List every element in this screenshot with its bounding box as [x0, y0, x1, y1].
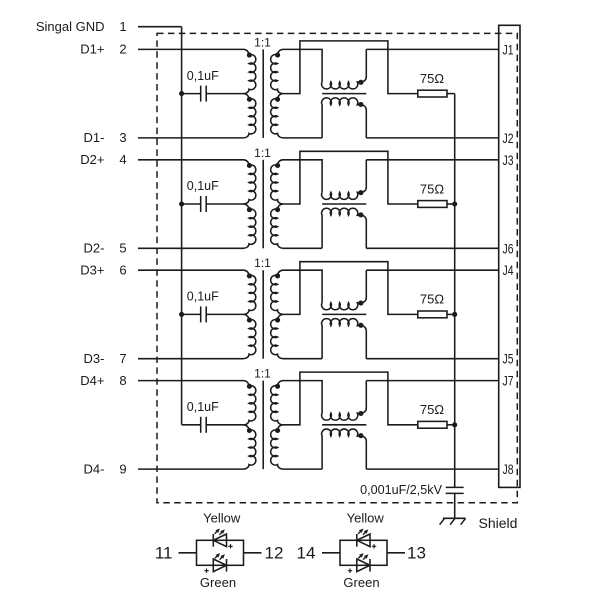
LED green anode plus	[204, 569, 208, 573]
transformer T4 core	[262, 381, 264, 470]
svg-text:J3: J3	[503, 152, 514, 168]
T1 secondary dot bottom	[275, 97, 280, 102]
wire T2 secondary bottom to choke L2	[283, 247, 322, 249]
T1 primary dot bottom	[247, 97, 252, 102]
svg-text:Yellow: Yellow	[203, 511, 241, 526]
svg-text:D1-: D1-	[84, 130, 105, 145]
choke L4 bottom winding	[322, 429, 367, 469]
T1 primary dot top	[247, 53, 252, 58]
LED green D-2b	[369, 559, 371, 572]
wire LED block 2 to pin 13	[387, 552, 405, 554]
svg-text:D4+: D4+	[80, 373, 104, 388]
transformer T2 primary winding	[244, 160, 256, 204]
svg-text:Singal GND: Singal GND	[36, 19, 105, 34]
choke L2 dot bottom	[358, 212, 363, 217]
svg-text:75Ω: 75Ω	[420, 181, 444, 196]
junction bus / R3	[452, 312, 457, 317]
wire choke L3 bottom to J5	[366, 358, 498, 360]
choke L4 core	[322, 424, 366, 426]
LED block 1 box	[197, 540, 244, 565]
svg-text:D3-: D3-	[84, 351, 105, 366]
module dashed border	[157, 33, 517, 502]
wire choke L2 top to J3	[366, 159, 498, 161]
choke L3 dot bottom	[358, 323, 363, 328]
svg-text:0,1uF: 0,1uF	[187, 179, 219, 193]
svg-text:Green: Green	[343, 575, 379, 590]
LED green emission arrows	[215, 556, 217, 558]
wire GND bus to capacitor C1	[182, 93, 201, 95]
transformer T4 primary winding	[244, 381, 256, 425]
svg-text:D2-: D2-	[84, 241, 105, 256]
wire resistor R4 to termination bus	[447, 424, 455, 426]
transformer T2 core	[262, 160, 264, 249]
T1 secondary dot top	[275, 53, 280, 58]
choke L1 bottom winding	[322, 98, 367, 138]
resistor R1 75 ohm	[418, 90, 447, 97]
transformer T3 secondary winding	[271, 270, 283, 314]
transformer T3 primary winding	[244, 270, 256, 314]
svg-text:J7: J7	[503, 373, 514, 389]
svg-text:8: 8	[119, 373, 126, 388]
svg-text:0,001uF/2,5kV: 0,001uF/2,5kV	[360, 483, 443, 497]
svg-text:D4-: D4-	[84, 461, 105, 476]
wire T4 secondary bottom to choke L4	[283, 468, 322, 470]
transformer T2 secondary winding	[271, 160, 283, 204]
svg-text:7: 7	[119, 351, 126, 366]
choke L3 top winding	[322, 270, 367, 310]
svg-text:0,1uF: 0,1uF	[187, 69, 219, 83]
wire T4 secondary top to choke L4	[283, 381, 322, 414]
T4 secondary dot top	[275, 384, 280, 389]
choke L1 dot top	[358, 80, 363, 85]
svg-text:75Ω: 75Ω	[420, 402, 444, 417]
choke L3 dot top	[358, 301, 363, 306]
wire capacitor C4 to primary center tap	[206, 424, 243, 426]
capacitor C1 0,1uF plates	[200, 86, 202, 102]
transformer T1 secondary winding	[271, 49, 283, 93]
wire pin D2- to transformer T2 primary bottom	[138, 247, 244, 249]
svg-text:J4: J4	[503, 262, 514, 278]
wire termination bus vertical	[454, 94, 456, 488]
choke L2 dot top	[358, 190, 363, 195]
svg-text:1:1: 1:1	[254, 367, 271, 381]
wire T1 secondary top to choke L1	[283, 49, 322, 82]
svg-text:J2: J2	[503, 130, 514, 146]
wire capacitor C1 to primary center tap	[206, 93, 243, 95]
junction bus / R2	[452, 201, 457, 206]
choke L3 bottom winding	[322, 319, 367, 359]
capacitor C3 0,1uF plates	[200, 306, 202, 322]
svg-text:75Ω: 75Ω	[420, 71, 444, 86]
svg-text:13: 13	[407, 543, 426, 562]
T4 secondary dot bottom	[275, 428, 280, 433]
svg-text:3: 3	[119, 130, 126, 145]
wire T3 secondary top to choke L3	[283, 270, 322, 303]
wire pin D4+ to transformer T4 primary top	[138, 380, 244, 382]
wire T3 secondary bottom to choke L3	[283, 358, 322, 360]
junction GND bus / C2	[179, 201, 184, 206]
svg-text:J8: J8	[503, 461, 514, 477]
svg-text:0,1uF: 0,1uF	[187, 290, 219, 304]
choke L3 core	[322, 313, 366, 315]
junction GND bus / C1	[179, 91, 184, 96]
svg-text:D2+: D2+	[80, 152, 104, 167]
LED green emission arrows	[358, 556, 360, 558]
svg-text:11: 11	[155, 543, 173, 562]
LED yellow anode plus	[228, 544, 232, 548]
resistor R3 75 ohm	[418, 311, 447, 318]
svg-text:Yellow: Yellow	[347, 511, 385, 526]
wire resistor R3 to termination bus	[447, 313, 455, 315]
choke L1 core	[322, 93, 366, 95]
resistor R4 75 ohm	[418, 421, 447, 428]
wire GND bus to capacitor C2	[182, 203, 201, 205]
transformer T3 core	[262, 270, 264, 359]
svg-text:Green: Green	[200, 575, 236, 590]
svg-text:1:1: 1:1	[254, 146, 271, 160]
T3 primary dot bottom	[247, 318, 252, 323]
LED yellow D-2a	[356, 534, 358, 547]
svg-text:J1: J1	[503, 41, 514, 57]
wire pin D1- to transformer T1 primary bottom	[138, 137, 244, 139]
wire choke L2 bottom to J6	[366, 247, 498, 249]
svg-text:1:1: 1:1	[254, 35, 271, 49]
svg-text:D1+: D1+	[80, 42, 104, 57]
choke L2 top winding	[322, 160, 367, 200]
LED green D-1b	[226, 559, 228, 572]
wire choke L4 top to J7	[366, 380, 498, 382]
wire capacitor C3 to primary center tap	[206, 313, 243, 315]
capacitor C2 0,1uF plates	[200, 196, 202, 212]
wire choke L1 top to J1	[366, 48, 498, 50]
choke L2 bottom winding	[322, 208, 367, 248]
wire pin D1+ to transformer T1 primary top	[138, 48, 244, 50]
transformer T4 secondary winding	[271, 381, 283, 425]
wire T3 secondary center tap bypass	[283, 262, 418, 315]
choke L4 top winding	[322, 381, 367, 421]
wire choke L1 bottom to J2	[366, 137, 498, 139]
svg-text:9: 9	[119, 461, 126, 476]
T3 primary dot top	[247, 273, 252, 278]
wire capacitor C5 to chassis ground	[454, 493, 456, 518]
wire GND bus to capacitor C4	[182, 424, 201, 426]
svg-text:2: 2	[119, 42, 126, 57]
connector box J1-J8	[499, 25, 520, 487]
junction bus / R4	[452, 422, 457, 427]
svg-text:75Ω: 75Ω	[420, 292, 444, 307]
svg-text:12: 12	[265, 543, 284, 562]
LED yellow emission arrows	[215, 531, 217, 533]
T2 secondary dot bottom	[275, 207, 280, 212]
transformer T1 core	[262, 49, 264, 137]
svg-text:0,1uF: 0,1uF	[187, 400, 219, 414]
LED yellow anode plus	[372, 544, 376, 548]
wire pin 1 Singal GND	[138, 26, 182, 28]
capacitor C4 0,1uF plates	[200, 417, 202, 433]
T4 primary dot bottom	[247, 428, 252, 433]
wire capacitor C2 to primary center tap	[206, 203, 243, 205]
wire pin D3- to transformer T3 primary bottom	[138, 358, 244, 360]
wire pin 11 to LED block 1	[179, 552, 197, 554]
choke L1 top winding	[322, 49, 367, 89]
choke L4 dot bottom	[358, 433, 363, 438]
LED yellow emission arrows	[358, 531, 360, 533]
wire T2 secondary top to choke L2	[283, 160, 322, 193]
transformer T1 primary winding	[244, 49, 256, 93]
T3 secondary dot top	[275, 273, 280, 278]
wire T4 secondary center tap bypass	[283, 372, 418, 425]
wire pin D3+ to transformer T3 primary top	[138, 269, 244, 271]
svg-text:J6: J6	[503, 240, 514, 256]
svg-text:4: 4	[119, 152, 126, 167]
wire pin D2+ to transformer T2 primary top	[138, 159, 244, 161]
wire resistor R1 to termination bus	[447, 93, 455, 95]
LED green anode plus	[348, 569, 352, 573]
wire choke L4 bottom to J8	[366, 468, 498, 470]
T2 primary dot bottom	[247, 207, 252, 212]
wire GND bus to capacitor C3	[182, 313, 201, 315]
LED block 2 box	[340, 540, 387, 565]
chassis ground (shield) symbol	[440, 518, 466, 524]
svg-text:1:1: 1:1	[254, 256, 271, 270]
choke L2 core	[322, 203, 366, 205]
choke L1 dot bottom	[358, 102, 363, 107]
choke L4 dot top	[358, 411, 363, 416]
svg-text:6: 6	[119, 263, 126, 278]
T2 secondary dot top	[275, 163, 280, 168]
wire T1 secondary center tap bypass	[283, 41, 418, 94]
wire signal GND bus vertical	[181, 27, 183, 425]
svg-text:Shield: Shield	[479, 515, 518, 531]
wire T2 secondary center tap bypass	[283, 151, 418, 204]
svg-text:5: 5	[119, 241, 126, 256]
LED yellow D-1a	[212, 534, 214, 547]
wire T1 secondary bottom to choke L1	[283, 137, 322, 139]
capacitor C5 0,001uF/2,5kV plates	[446, 486, 464, 488]
svg-text:1: 1	[119, 19, 126, 34]
svg-text:D3+: D3+	[80, 263, 104, 278]
wire resistor R2 to termination bus	[447, 203, 455, 205]
junction GND bus / C3	[179, 312, 184, 317]
T3 secondary dot bottom	[275, 318, 280, 323]
T2 primary dot top	[247, 163, 252, 168]
wire LED block 1 to pin 12	[244, 552, 262, 554]
T4 primary dot top	[247, 384, 252, 389]
svg-text:J5: J5	[503, 351, 514, 367]
wire choke L3 top to J4	[366, 269, 498, 271]
wire pin 14 to LED block 2	[322, 552, 340, 554]
resistor R2 75 ohm	[418, 201, 447, 208]
wire pin D4- to transformer T4 primary bottom	[138, 468, 244, 470]
svg-text:14: 14	[297, 543, 316, 562]
